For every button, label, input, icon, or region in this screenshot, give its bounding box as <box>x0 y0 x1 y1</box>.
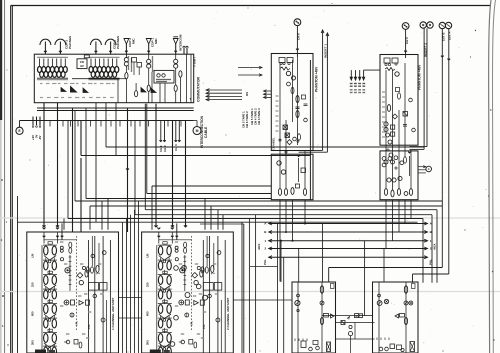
R1 resistor column b <box>296 110 299 117</box>
svg-text:2 CHANNEL AMP UNIT: 2 CHANNEL AMP UNIT <box>226 298 230 330</box>
strip entry vertical x211 <box>210 206 212 230</box>
inter-strip vertical a <box>122 222 124 353</box>
switch contact row A <box>61 88 66 92</box>
wire drop ch1 input c <box>72 108 74 232</box>
R2 extra cap <box>403 124 407 126</box>
channel 1 contact tick column <box>69 255 71 291</box>
channel 2 pad circle pair <box>175 246 178 249</box>
ext B line <box>441 29 443 268</box>
program arrow feed wire <box>364 69 380 71</box>
channel 2 fader wedge <box>194 301 199 306</box>
route line y222 <box>18 221 418 223</box>
M1 out terminal a <box>355 314 359 318</box>
M2 right internal vertical <box>405 282 407 353</box>
bus drop x305 <box>304 200 306 224</box>
svg-text:PHL: PHL <box>263 259 267 265</box>
strip link wire b <box>119 317 142 319</box>
R2 resistor top <box>387 105 390 112</box>
M1 corner tag <box>331 284 335 289</box>
border line outer <box>10 6 12 353</box>
ext A line <box>448 29 450 274</box>
intercom jack <box>173 39 178 45</box>
svg-text:PHL: PHL <box>429 259 433 265</box>
paper noise speckles <box>316 15 319 18</box>
relay box K1 <box>132 58 137 63</box>
switch contact row B <box>141 88 146 93</box>
channel 1 fader2 box <box>71 300 75 305</box>
channel 1 right part verticals <box>91 236 93 266</box>
R2 input pad block <box>384 58 390 63</box>
route line y214 <box>135 214 432 216</box>
channel 2 fader2 box <box>185 300 189 305</box>
svg-text:AFL: AFL <box>189 321 193 326</box>
commutator unit inner right edge <box>190 54 192 102</box>
M1 bottom box a <box>301 341 306 348</box>
commutator winding group B <box>89 57 120 80</box>
R1 pot box b <box>285 133 290 138</box>
tiny contact text row A <box>40 83 43 85</box>
M1 node dot b <box>297 309 299 311</box>
R1 extra cap <box>304 103 308 105</box>
feed pair corner x277 <box>250 266 278 268</box>
R2 square a <box>403 112 408 117</box>
aux input stem 2 <box>186 48 188 55</box>
R2 extra resistor <box>398 93 401 99</box>
channel 1 node rings mid <box>60 258 63 261</box>
channel 1 right rings <box>91 254 94 257</box>
M2 input resistor <box>404 286 407 294</box>
connector CH5 <box>402 23 409 30</box>
strip R1 upper box <box>271 54 313 151</box>
text column TALK BACK <box>128 56 130 70</box>
transistor pair Q101 <box>124 58 128 62</box>
M1 transistor <box>295 300 300 305</box>
strip entry vertical x223 <box>222 215 224 230</box>
connector CH6 <box>294 19 301 26</box>
svg-text:2K5: 2K5 <box>145 340 149 345</box>
wire CH6 to strip <box>296 26 298 57</box>
channel 1 right node <box>101 318 105 322</box>
route line y209 <box>145 209 437 211</box>
R1 lower transistor Q4 <box>281 170 285 174</box>
R2 text column <box>382 91 385 93</box>
M1 out node drop <box>350 336 352 353</box>
bus line under box <box>37 107 194 109</box>
insert1 channel lines <box>322 32 324 151</box>
channel 2 transformer stages <box>158 242 172 263</box>
channel 2 extra node g <box>170 342 175 347</box>
channel 2 right node2 <box>208 294 212 298</box>
feed vertical pair b <box>243 224 245 353</box>
relay box K2 <box>137 63 142 68</box>
strip entry vertical x64 <box>63 219 65 230</box>
aux input stem <box>183 48 185 55</box>
inter-strip vertical d <box>134 210 136 353</box>
R1 output resistors <box>278 189 281 196</box>
strip entry vertical x108 <box>107 199 109 230</box>
channel 2 diamond <box>192 273 198 279</box>
M1 input resistor <box>320 286 323 294</box>
channel 2 bottom smudge <box>150 350 161 353</box>
fold line upper <box>0 217 500 219</box>
channel 2 switch bank a <box>203 283 213 291</box>
strip entry vertical x152 <box>151 186 153 230</box>
wire drop x135 <box>134 121 136 215</box>
headphone jack CDP1 <box>95 42 97 55</box>
channel 1 switch bank b <box>100 283 108 291</box>
channel 1 amp unit box <box>27 232 119 353</box>
channel 1 switch bank a <box>89 283 99 291</box>
R1 lower wires <box>304 150 306 188</box>
R1 pot box a <box>283 125 288 130</box>
R2 drop x405 <box>404 200 406 224</box>
M1 link vertical <box>354 323 356 340</box>
terminal stems CH1 CH2 <box>160 121 162 142</box>
R2 extra dot nodes <box>387 149 389 151</box>
strip entry vertical x205 <box>204 199 206 230</box>
scan speck group <box>492 271 494 273</box>
bus line A <box>269 223 428 225</box>
commutator winding group A <box>37 57 68 80</box>
R1 lower square2 <box>296 184 300 188</box>
wire drop x116 <box>115 103 117 156</box>
channel 2 amp unit box <box>142 232 234 353</box>
R1 text column <box>276 95 279 97</box>
inter-strip vertical b <box>126 219 128 353</box>
border line inner <box>11 6 13 353</box>
svg-text:gnd: gnd <box>211 273 216 275</box>
R1 extra circle2 <box>304 118 308 122</box>
channel 1 fader resistor <box>86 300 90 305</box>
feed vertical pair a <box>241 222 243 353</box>
svg-text:PHANTOM +48V: PHANTOM +48V <box>315 66 319 92</box>
connector INSERT2 send <box>420 22 426 28</box>
M2 bottom ticks <box>376 338 378 341</box>
earth terminal E <box>16 127 23 134</box>
R1 extra node circle <box>287 82 291 86</box>
tiny contact text row B <box>40 97 43 99</box>
R1 input pad block <box>279 58 285 63</box>
relay wires <box>133 62 135 75</box>
svg-text:2K5: 2K5 <box>31 340 35 345</box>
channel 1 resistors mid <box>85 270 88 277</box>
R2 gain resistor <box>385 68 395 71</box>
channel 2 pan pot <box>185 313 189 317</box>
wire CH5 to strip <box>405 29 407 58</box>
channel 1 bottom components <box>66 340 70 344</box>
commutator unit box <box>34 54 193 102</box>
internal wires right cluster <box>125 66 127 73</box>
channel 2 fader resistor <box>200 300 204 305</box>
channel 2 extra node f <box>174 315 179 320</box>
svg-text:1 CHANNEL AMP UNIT: 1 CHANNEL AMP UNIT <box>111 298 115 330</box>
channel 2 extra node a <box>174 266 179 271</box>
R2 extra circle2 <box>412 128 416 132</box>
R2 extra circle <box>409 98 413 102</box>
M1 out node circle <box>348 332 352 336</box>
route line y147 <box>106 146 424 148</box>
strip R1 lower box <box>271 154 313 200</box>
tape arrows to R1 <box>264 90 272 92</box>
transistor pair Q103 <box>174 59 178 63</box>
M2 bottom square <box>390 344 395 349</box>
channel 2 right resistor pair <box>201 267 204 273</box>
wire drop x127 intercom to ch2 <box>127 108 129 232</box>
svg-text:COMMUTATOR: COMMUTATOR <box>197 76 201 102</box>
M1 out wire b <box>336 322 375 324</box>
bus drop x364 <box>364 241 366 316</box>
relay SW sub-box <box>77 59 87 69</box>
bus drop x281 <box>280 241 282 282</box>
bus drop x292 <box>292 200 294 241</box>
route line y218 <box>68 218 423 220</box>
connector EXT B <box>439 22 445 28</box>
channel 2 bottom smudge2 <box>164 350 170 352</box>
R1 internal wires <box>279 63 281 189</box>
channel 1 entry x62 <box>61 223 63 240</box>
channel 1 right verticals <box>88 240 90 353</box>
R2 lower circles <box>387 178 391 182</box>
M2 bottom rect c <box>397 345 402 350</box>
channel 2 right verticals <box>202 240 204 353</box>
connector EXT A <box>445 22 451 28</box>
R2 square c <box>391 132 395 136</box>
channel 2 resistors mid <box>200 270 203 277</box>
R1 lower square <box>301 168 306 173</box>
svg-text:CABLE: CABLE <box>204 126 208 138</box>
channel 2 sum node ring <box>179 300 184 305</box>
svg-text:PHANTOM +48V: PHANTOM +48V <box>417 64 421 90</box>
R2 diamond <box>392 114 397 119</box>
channel 2 transistor node <box>180 268 185 273</box>
svg-text:PFL: PFL <box>87 324 91 329</box>
R1 extra resistor <box>291 87 294 93</box>
power tick -9V <box>39 117 41 126</box>
channel 2 header wire <box>159 239 192 241</box>
M2 left internal vertical <box>378 282 380 353</box>
svg-text:CHANNEL: CHANNEL <box>272 137 276 150</box>
channel 1 right resistor pair <box>86 267 89 273</box>
bus drop x280 <box>279 200 281 282</box>
interconnection terminal M <box>193 127 201 135</box>
channel 1 sum node ring <box>64 300 69 305</box>
svg-text:CH 2: CH 2 <box>163 145 167 152</box>
R2 circle e <box>389 153 393 157</box>
R2 output resistors <box>384 189 387 196</box>
scan left dark edge <box>0 0 2 120</box>
bus line 2 <box>269 248 428 250</box>
channel 1 transistor node <box>65 268 70 273</box>
channel 1 bottom smudge2 <box>49 350 55 352</box>
M1 bottom rect c <box>313 341 318 345</box>
channel 2 micro text marks <box>175 241 178 243</box>
R2 drop x399 <box>398 200 400 232</box>
send wire to R1 a <box>238 67 262 69</box>
svg-text:9V: 9V <box>80 64 84 68</box>
resistor R103 <box>147 85 150 91</box>
resistor R104 <box>174 85 177 91</box>
channel 1 pad resistor pair <box>69 242 72 248</box>
R1 resistor column a <box>296 95 299 102</box>
terminal stems CH3 CH4 <box>175 121 177 142</box>
bus drop x322 <box>322 224 324 282</box>
channel 1 eq ladder wire <box>41 245 43 351</box>
R1 lower transistor Q3 <box>277 161 281 165</box>
master mid circle <box>349 325 352 328</box>
svg-text:800: 800 <box>145 311 149 316</box>
M1 link square <box>341 321 345 325</box>
svg-text:DS: DS <box>245 92 249 96</box>
wire corner x68 <box>67 121 69 219</box>
top border line <box>11 5 491 7</box>
strip R2 upper box <box>380 55 418 146</box>
tape terminal arrows <box>206 89 242 91</box>
svg-text:-9V: -9V <box>38 136 42 140</box>
M2 transistor a <box>377 301 382 306</box>
svg-text:CH 6 TAPE 2: CH 6 TAPE 2 <box>245 111 249 128</box>
mic jack CDP2 <box>124 39 129 45</box>
channel 2 contact tick column <box>184 255 186 291</box>
svg-text:MIC: MIC <box>154 38 158 44</box>
bus line lower <box>20 120 194 122</box>
bus line under box 2 <box>37 110 194 112</box>
M2 node dot a <box>378 294 381 297</box>
M2 cross circle <box>384 299 388 303</box>
M2 fader wedge <box>395 314 399 318</box>
resistor R100 <box>125 73 128 79</box>
route line y201 <box>75 200 443 202</box>
route line y198 <box>86 198 271 200</box>
route line y186 <box>152 185 271 187</box>
strip link wire c <box>234 299 293 301</box>
R2 circle pair f <box>384 160 388 164</box>
svg-text:PHONES: PHONES <box>68 36 72 49</box>
wire drop x81 to ch1 <box>80 158 82 232</box>
channel 2 extra node d <box>196 284 201 289</box>
wire drop ch1 input a <box>43 103 45 227</box>
channel 1 pad circle pair <box>60 246 63 249</box>
channel 2 right rings <box>206 254 209 257</box>
M1 bottom circle a <box>309 347 313 351</box>
bus drop x286 <box>285 200 287 232</box>
svg-text:EXT A: EXT A <box>448 31 452 40</box>
svg-text:CH 3: CH 3 <box>174 144 178 151</box>
connector INSERT2 return <box>427 22 433 28</box>
M2 pot rect <box>400 314 405 318</box>
resistor R101 <box>179 71 182 77</box>
svg-text:800: 800 <box>31 311 35 316</box>
fuse rect <box>84 55 89 58</box>
wire drop x145 pair <box>144 104 146 210</box>
channel 1 mid ring <box>79 280 83 284</box>
channel 2 bottom components <box>181 340 185 344</box>
R1 resistor c <box>298 134 301 140</box>
M2 cross circle b <box>409 301 413 305</box>
channel 2 right node <box>216 318 220 322</box>
R1 diamond mixer <box>287 140 292 145</box>
R2 square b <box>391 125 395 129</box>
M1 pot rect <box>324 314 329 318</box>
bus drop x384 <box>383 249 385 283</box>
R2 extra rect <box>396 88 400 92</box>
aux node connector lines <box>418 166 426 168</box>
insert1 loop bottom <box>298 149 323 151</box>
channel 2 extra node c <box>185 293 190 298</box>
text column MIC TALK <box>152 56 154 72</box>
R2 drop x411 <box>410 200 412 219</box>
R1 circle node <box>293 137 297 141</box>
channel 1 pan pot <box>70 313 74 317</box>
resistor R102 <box>135 91 138 97</box>
strip link wire a <box>119 297 142 299</box>
M2 resistor low <box>404 317 407 324</box>
R1 extra rect <box>302 95 306 99</box>
channel 1 micro text marks <box>60 241 63 243</box>
svg-text:CH 3 TAPE 3: CH 3 TAPE 3 <box>257 108 261 125</box>
left long vertical x17 <box>17 196 19 353</box>
headphone jack CDP2 <box>44 42 46 55</box>
master unit box M1 <box>292 282 336 353</box>
M2 bottom circle b <box>385 347 389 351</box>
aux node circle <box>426 166 432 172</box>
strip entry vertical x218 <box>217 210 219 230</box>
wire drop ch1 input b <box>57 103 59 227</box>
channel 2 extra node e <box>203 295 208 300</box>
channel 1 dashed control line <box>76 236 78 331</box>
channel 2 node rings mid <box>175 258 178 261</box>
svg-text:PHONES: PHONES <box>116 36 120 49</box>
channel 2 switch bank b <box>214 283 222 291</box>
wire drop ch2 input b <box>172 121 174 228</box>
svg-text:INTERCOM: INTERCOM <box>178 34 182 51</box>
R2 node circle d <box>388 140 392 144</box>
M1 bottom circle b <box>316 346 320 350</box>
R2 drop x386 <box>385 200 387 249</box>
M1 out wire a <box>322 315 358 317</box>
stub drops from cable bus <box>49 121 51 127</box>
M1 slash node <box>320 301 324 305</box>
mic stem interior continuations <box>125 54 127 58</box>
svg-text:250: 250 <box>145 282 149 287</box>
R2 transistor QA <box>395 72 399 76</box>
M1 arrow mark <box>347 317 350 320</box>
channel 1 input arrows <box>43 228 46 230</box>
power tick +9V <box>32 117 34 126</box>
wire corner x75 <box>74 111 76 202</box>
M1 left internal vertical <box>297 282 299 353</box>
feed vertical x249 <box>248 219 250 353</box>
channel 2 dashed control line <box>190 236 192 331</box>
wire drop ch2 input c <box>185 121 187 228</box>
inter-strip vertical c <box>130 215 132 353</box>
M1 bottom ticks <box>294 339 296 342</box>
R2 ring cluster <box>382 157 386 161</box>
svg-text:PFL: PFL <box>202 324 206 329</box>
channel 1 transformer stages <box>43 242 57 263</box>
fold line lower <box>0 291 500 293</box>
wire corner x106 <box>105 103 107 147</box>
M1 right internal vertical <box>321 282 323 353</box>
channel 2 pad resistor pair <box>184 242 187 248</box>
svg-text:AFL: AFL <box>75 321 79 326</box>
channel 2 eq ladder wire <box>156 245 158 351</box>
svg-text:M: M <box>355 315 357 318</box>
M1 node dot a <box>297 294 300 297</box>
M2 bottom fader <box>410 342 415 352</box>
program terminal arrows <box>350 70 352 80</box>
channel 1 header wire <box>44 239 77 241</box>
strip R2 lower box <box>380 151 418 200</box>
